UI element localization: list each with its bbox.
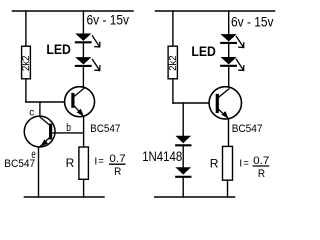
svg-text:I: I [94, 155, 97, 167]
diode D4 1N4148 [175, 167, 191, 177]
wire right base horizontal [173, 102, 216, 104]
wire Q2 emitter vertical [38, 147, 40, 197]
svg-text:2k2: 2k2 [168, 55, 179, 71]
resistor R2 2k2 left [22, 46, 31, 79]
wire right top rail [155, 10, 274, 12]
svg-text:BC547: BC547 [232, 123, 263, 135]
svg-text:LED: LED [191, 44, 216, 59]
wire left 2k2 branch top [25, 11, 27, 46]
transistor Q3 BC547 right [209, 87, 241, 119]
LED D6 right [221, 57, 244, 70]
wire diode branch drop [182, 103, 184, 136]
wire Q2 base horizontal [53, 132, 84, 134]
resistor R right [223, 146, 233, 180]
svg-text:2k2: 2k2 [21, 55, 32, 71]
wire left top rail [12, 10, 133, 12]
svg-text:b: b [66, 122, 71, 134]
wire between LEDs left [82, 43, 84, 57]
diode D3 1N4148 [175, 136, 191, 146]
wire right 2k2 branch top [172, 11, 174, 46]
svg-text:=: = [98, 156, 104, 168]
transistor Q1 BC547 upper left [65, 87, 95, 117]
LED D1 left [75, 34, 100, 47]
wire LED2 to Q3 collector right [228, 67, 230, 87]
svg-text:6v - 15v: 6v - 15v [87, 13, 130, 28]
wire R bottom right [227, 180, 229, 197]
wire right bottom rail [155, 196, 235, 198]
svg-text:6v - 15v: 6v - 15v [231, 15, 274, 30]
wire between diodes [182, 146, 184, 167]
svg-text:R: R [114, 166, 121, 178]
transistor Q2 BC547 lower left (mirrored) [24, 116, 55, 147]
LED D5 right [221, 34, 244, 47]
svg-text:BC547: BC547 [90, 123, 120, 135]
formula I = 0.7/R right [239, 155, 269, 180]
wire LED branch vertical left [82, 11, 84, 34]
wire between LEDs right [228, 44, 230, 57]
wire LED2 to Q1 collector [82, 67, 84, 87]
svg-text:1N4148: 1N4148 [142, 149, 182, 164]
svg-text:I: I [239, 157, 242, 169]
wire left bottom rail [24, 196, 104, 198]
wire left base horizontal [26, 101, 72, 103]
svg-text:0.7: 0.7 [109, 153, 125, 165]
svg-text:LED: LED [46, 42, 71, 57]
svg-text:R: R [258, 168, 265, 180]
svg-text:R: R [210, 156, 219, 170]
resistor R left [79, 147, 89, 179]
wire diode branch to rail [182, 178, 184, 197]
wire Q3 emitter drop [228, 120, 230, 147]
svg-text:0.7: 0.7 [253, 155, 269, 167]
wire right 2k2 branch bottom [172, 79, 174, 103]
formula I = 0.7/R left [94, 153, 125, 178]
wire R bottom left [83, 180, 85, 198]
svg-text:R: R [66, 156, 75, 170]
wire LED branch vertical right [228, 11, 230, 34]
svg-text:BC547: BC547 [4, 158, 35, 170]
resistor R4 2k2 right [168, 46, 177, 79]
svg-text:c: c [29, 107, 34, 119]
svg-text:=: = [243, 158, 249, 170]
LED D2 left [75, 57, 100, 70]
wire left 2k2 branch bottom [25, 79, 27, 102]
wire junction drop to Q2 collector [39, 102, 41, 116]
wire Q1 emitter drop [83, 117, 85, 147]
